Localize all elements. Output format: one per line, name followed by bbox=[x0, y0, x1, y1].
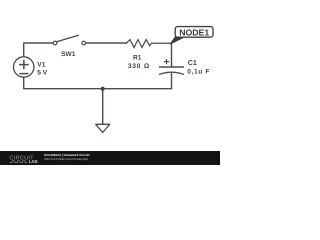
svg-text:V1: V1 bbox=[37, 62, 45, 69]
svg-text:R1: R1 bbox=[133, 54, 142, 61]
svg-text:C1: C1 bbox=[188, 59, 197, 67]
svg-text:5 V: 5 V bbox=[37, 70, 47, 77]
svg-text:330 Ω: 330 Ω bbox=[128, 63, 150, 70]
svg-text:NODE1: NODE1 bbox=[179, 27, 209, 37]
svg-text:0,1u F: 0,1u F bbox=[187, 69, 210, 76]
svg-text:http://circuitlab.com/c/mqey6q: http://circuitlab.com/c/mqey6qv bbox=[44, 157, 88, 161]
svg-text:LAB: LAB bbox=[29, 159, 38, 164]
svg-text:SW1: SW1 bbox=[61, 51, 76, 58]
